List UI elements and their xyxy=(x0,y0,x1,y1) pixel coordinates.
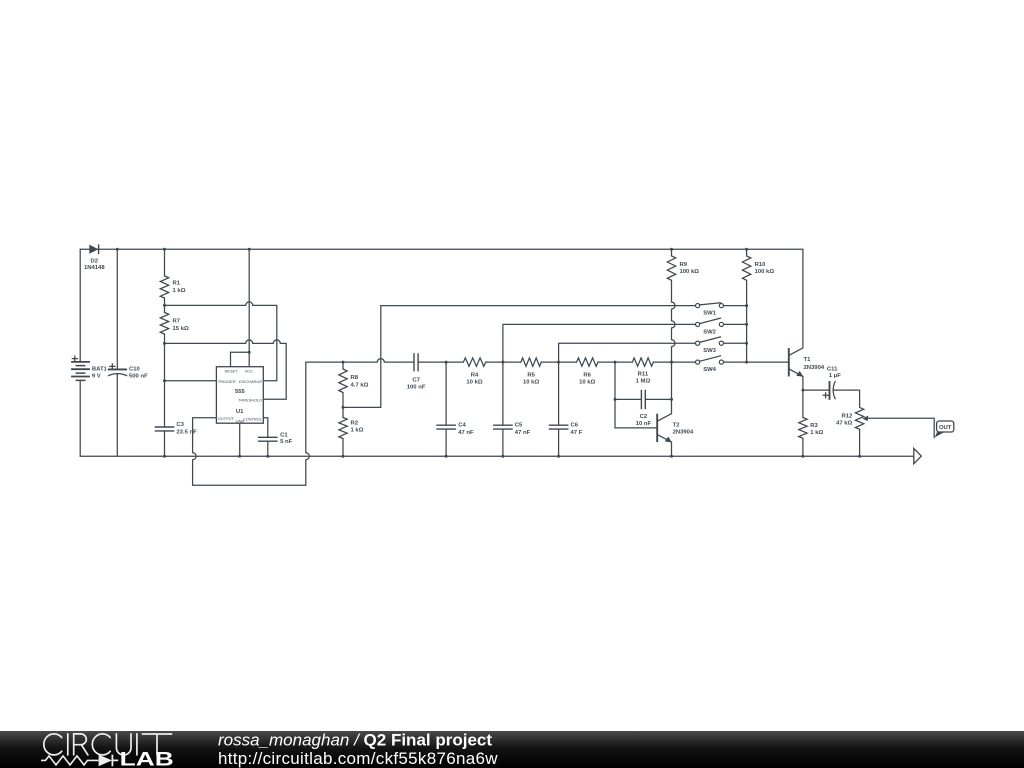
node bottom rail / C5 xyxy=(501,455,504,458)
node C2 left junction xyxy=(614,398,617,401)
svg-text:R10: R10 xyxy=(755,262,767,268)
wire R10 bus xyxy=(746,280,748,362)
svg-text:47 nF: 47 nF xyxy=(515,430,531,436)
svg-text:TRIGGER: TRIGGER xyxy=(218,379,236,384)
node T1 emitter / C11 / R3 xyxy=(801,389,804,392)
svg-text:R8: R8 xyxy=(351,375,359,381)
wire main signal row xyxy=(306,359,788,363)
op-amp U1 555 timer box xyxy=(216,367,263,424)
wire trigger stub xyxy=(165,380,217,382)
svg-text:C6: C6 xyxy=(571,423,579,429)
resistor R7 xyxy=(160,313,189,335)
svg-text:1 kΩ: 1 kΩ xyxy=(810,430,823,436)
svg-text:C11: C11 xyxy=(827,366,838,372)
wire left battery drop xyxy=(79,249,81,362)
node top rail / C10 xyxy=(116,248,119,251)
svg-text:500 nF: 500 nF xyxy=(129,374,148,380)
svg-text:C10: C10 xyxy=(129,366,141,372)
node trigger junction xyxy=(163,379,166,382)
wire 555 output routing xyxy=(193,362,310,485)
svg-text:R11: R11 xyxy=(638,372,649,378)
FOOTER xyxy=(0,731,1024,768)
svg-text:T1: T1 xyxy=(804,357,812,363)
svg-text:23.5 nF: 23.5 nF xyxy=(176,430,197,436)
svg-text:R7: R7 xyxy=(173,319,181,325)
wire bottom ground rail xyxy=(80,455,914,457)
svg-text:47 nF: 47 nF xyxy=(458,430,474,436)
node C2 / collector bus xyxy=(670,398,673,401)
capacitor C3 xyxy=(155,422,197,456)
capacitor C6 xyxy=(549,362,583,456)
svg-text:555: 555 xyxy=(235,389,246,395)
capacitor C2 xyxy=(636,390,652,428)
node main row / T2 base drop xyxy=(614,361,617,364)
node reset/vcc junction xyxy=(248,351,251,354)
svg-text:R2: R2 xyxy=(351,420,359,426)
svg-text:rossa_monaghan / Q2 Final proj: rossa_monaghan / Q2 Final project xyxy=(218,731,492,750)
svg-text:C1: C1 xyxy=(280,432,288,438)
capacitor C7 xyxy=(407,353,426,390)
svg-text:R4: R4 xyxy=(471,373,479,379)
svg-text:http://circuitlab.com/ckf55k87: http://circuitlab.com/ckf55k876na6w xyxy=(218,749,498,768)
logo letter I xyxy=(136,734,138,755)
node R8/R2 junction xyxy=(342,406,345,409)
svg-text:OUT: OUT xyxy=(939,425,952,431)
wire riser to SW2 row xyxy=(503,324,696,362)
capacitor C10 xyxy=(108,249,148,456)
node bottom rail / C6 xyxy=(557,455,560,458)
svg-text:SW3: SW3 xyxy=(703,348,716,354)
svg-text:C2: C2 xyxy=(640,414,648,420)
node VCC riser top xyxy=(248,248,251,251)
logo diode xyxy=(99,755,112,767)
wire battery to bottom rail xyxy=(79,380,81,456)
wire 555 gnd stub xyxy=(239,423,241,456)
wire feedback riser to SW1 row xyxy=(343,306,696,408)
svg-text:SW2: SW2 xyxy=(703,329,716,335)
svg-text:SW1: SW1 xyxy=(703,311,716,317)
wire reset jumper xyxy=(231,352,250,366)
wire T2 base drop xyxy=(615,362,656,428)
svg-text:C4: C4 xyxy=(458,423,466,429)
wire T1 emitter drop xyxy=(802,376,804,417)
wire C11 to R12 xyxy=(833,390,859,407)
resistor R9 xyxy=(667,249,699,280)
node bottom rail / C1 xyxy=(266,455,269,458)
resistor R10 xyxy=(742,249,774,280)
svg-text:SW4: SW4 xyxy=(703,367,716,373)
resistor R4 xyxy=(463,358,485,386)
wire VCC riser xyxy=(248,249,250,367)
capacitor C5 xyxy=(493,362,530,456)
wire control net xyxy=(263,418,268,438)
diode D2 xyxy=(84,244,105,271)
svg-text:100 kΩ: 100 kΩ xyxy=(680,269,700,275)
svg-text:10 nF: 10 nF xyxy=(636,421,652,427)
logo resistor squiggle xyxy=(41,756,98,765)
node gnd rail xyxy=(238,455,241,458)
svg-text:T2: T2 xyxy=(673,422,681,428)
wire R1 to R7 xyxy=(164,298,166,313)
switch SW4 xyxy=(696,356,724,373)
node main row / R8 xyxy=(342,361,345,364)
wire R1 riser xyxy=(164,249,166,276)
node OUT flag xyxy=(935,421,954,437)
node bottom rail / C3 xyxy=(163,455,166,458)
svg-text:U1: U1 xyxy=(236,409,244,415)
node main row / C4 xyxy=(445,361,448,364)
capacitor C1 xyxy=(258,432,293,456)
svg-text:10 kΩ: 10 kΩ xyxy=(523,380,539,386)
node main row / C6 xyxy=(557,361,560,364)
wire discharge net xyxy=(165,302,277,381)
node main row / R9 bus xyxy=(670,361,673,364)
node top rail / R10 xyxy=(745,248,748,251)
switch SW3 xyxy=(696,337,747,354)
node bottom rail / R3 xyxy=(801,455,804,458)
svg-text:1 µF: 1 µF xyxy=(829,373,841,379)
node bottom rail / C4 xyxy=(445,455,448,458)
svg-text:1N4148: 1N4148 xyxy=(84,265,105,271)
resistor R6 xyxy=(577,358,598,386)
svg-text:THRESHOLD: THRESHOLD xyxy=(238,397,262,402)
svg-text:VCC: VCC xyxy=(245,369,253,374)
node R10 bus / SW1 row xyxy=(745,304,748,307)
wire R12 wiper to OUT xyxy=(867,418,934,438)
node R1/R7 discharge junction xyxy=(163,304,166,307)
node R10 bus / SW3 row xyxy=(745,342,748,345)
resistor R11 xyxy=(632,358,653,385)
svg-text:4.7 kΩ: 4.7 kΩ xyxy=(351,382,369,388)
logo letter R xyxy=(74,734,88,755)
svg-text:1 MΩ: 1 MΩ xyxy=(636,379,651,385)
node top rail / R1 xyxy=(163,248,166,251)
wire top supply rail xyxy=(80,248,803,250)
resistor R2 xyxy=(339,418,364,457)
wire emitter node to C11 xyxy=(803,389,830,391)
svg-text:9 V: 9 V xyxy=(92,374,101,380)
svg-text:100 kΩ: 100 kΩ xyxy=(755,269,775,275)
node top rail / R9 xyxy=(670,248,673,251)
svg-text:2N3904: 2N3904 xyxy=(673,429,694,435)
wire T1 collector riser xyxy=(802,249,804,348)
resistor R8 xyxy=(339,362,369,417)
node R10 bus / main row xyxy=(745,361,748,364)
svg-text:10 kΩ: 10 kΩ xyxy=(466,380,482,386)
svg-text:C5: C5 xyxy=(515,423,523,429)
svg-text:1 kΩ: 1 kΩ xyxy=(351,427,364,433)
logo letter C xyxy=(44,734,62,755)
logo letter C xyxy=(92,734,110,755)
svg-text:10 kΩ: 10 kΩ xyxy=(579,380,595,386)
node bottom rail / R12 xyxy=(858,455,861,458)
svg-text:DISCHARGE: DISCHARGE xyxy=(239,379,263,384)
svg-text:R1: R1 xyxy=(173,281,181,287)
wire R9 bus with hops xyxy=(672,280,676,413)
switch SW1 xyxy=(696,303,747,317)
resistor R3 xyxy=(799,418,824,457)
logo letter I xyxy=(67,734,69,755)
svg-text:R5: R5 xyxy=(527,373,535,379)
wire C2 right lead xyxy=(645,398,671,400)
node R10 bus / SW2 row xyxy=(745,323,748,326)
svg-text:R9: R9 xyxy=(680,262,688,268)
battery BAT1 xyxy=(71,356,107,380)
svg-text:2N3904: 2N3904 xyxy=(804,365,825,371)
svg-text:15 kΩ: 15 kΩ xyxy=(173,326,189,332)
svg-text:47 F: 47 F xyxy=(571,430,583,436)
transistor T1 xyxy=(789,348,825,377)
node main row / C5 xyxy=(501,361,504,364)
output port triangle xyxy=(914,448,922,463)
wire C2 left lead xyxy=(615,398,641,400)
svg-text:D2: D2 xyxy=(91,259,99,265)
wire threshold net xyxy=(165,340,287,399)
capacitor C4 xyxy=(436,362,474,456)
wire riser to SW3 row xyxy=(559,343,696,362)
transistor T2 xyxy=(657,414,694,457)
svg-text:BAT1: BAT1 xyxy=(92,366,108,372)
svg-text:CONTROL: CONTROL xyxy=(243,417,262,422)
svg-text:R3: R3 xyxy=(810,423,818,429)
svg-text:LAB: LAB xyxy=(120,748,174,768)
switch SW2 xyxy=(696,318,747,335)
svg-text:5 nF: 5 nF xyxy=(280,439,293,445)
resistor R12 potentiometer xyxy=(836,407,868,456)
svg-text:RESET: RESET xyxy=(225,369,239,374)
resistor R5 xyxy=(521,358,541,386)
logo letter U xyxy=(116,734,131,755)
svg-text:100 nF: 100 nF xyxy=(407,385,426,391)
node R7 threshold junction xyxy=(163,342,166,345)
node bottom rail / R2 xyxy=(342,455,345,458)
node bottom rail / T2 emitter xyxy=(670,455,673,458)
svg-text:R12: R12 xyxy=(841,413,853,419)
logo letter T xyxy=(142,734,171,755)
svg-text:C7: C7 xyxy=(412,378,420,384)
wire R7 to trigger/C3 column xyxy=(164,334,166,427)
resistor R1 xyxy=(160,276,185,298)
svg-text:OUTPUT: OUTPUT xyxy=(218,416,235,421)
svg-text:1 kΩ: 1 kΩ xyxy=(173,288,186,294)
svg-text:R6: R6 xyxy=(583,373,591,379)
svg-text:C3: C3 xyxy=(176,422,184,428)
svg-text:47 kΩ: 47 kΩ xyxy=(836,421,852,427)
capacitor C11 xyxy=(823,366,841,399)
